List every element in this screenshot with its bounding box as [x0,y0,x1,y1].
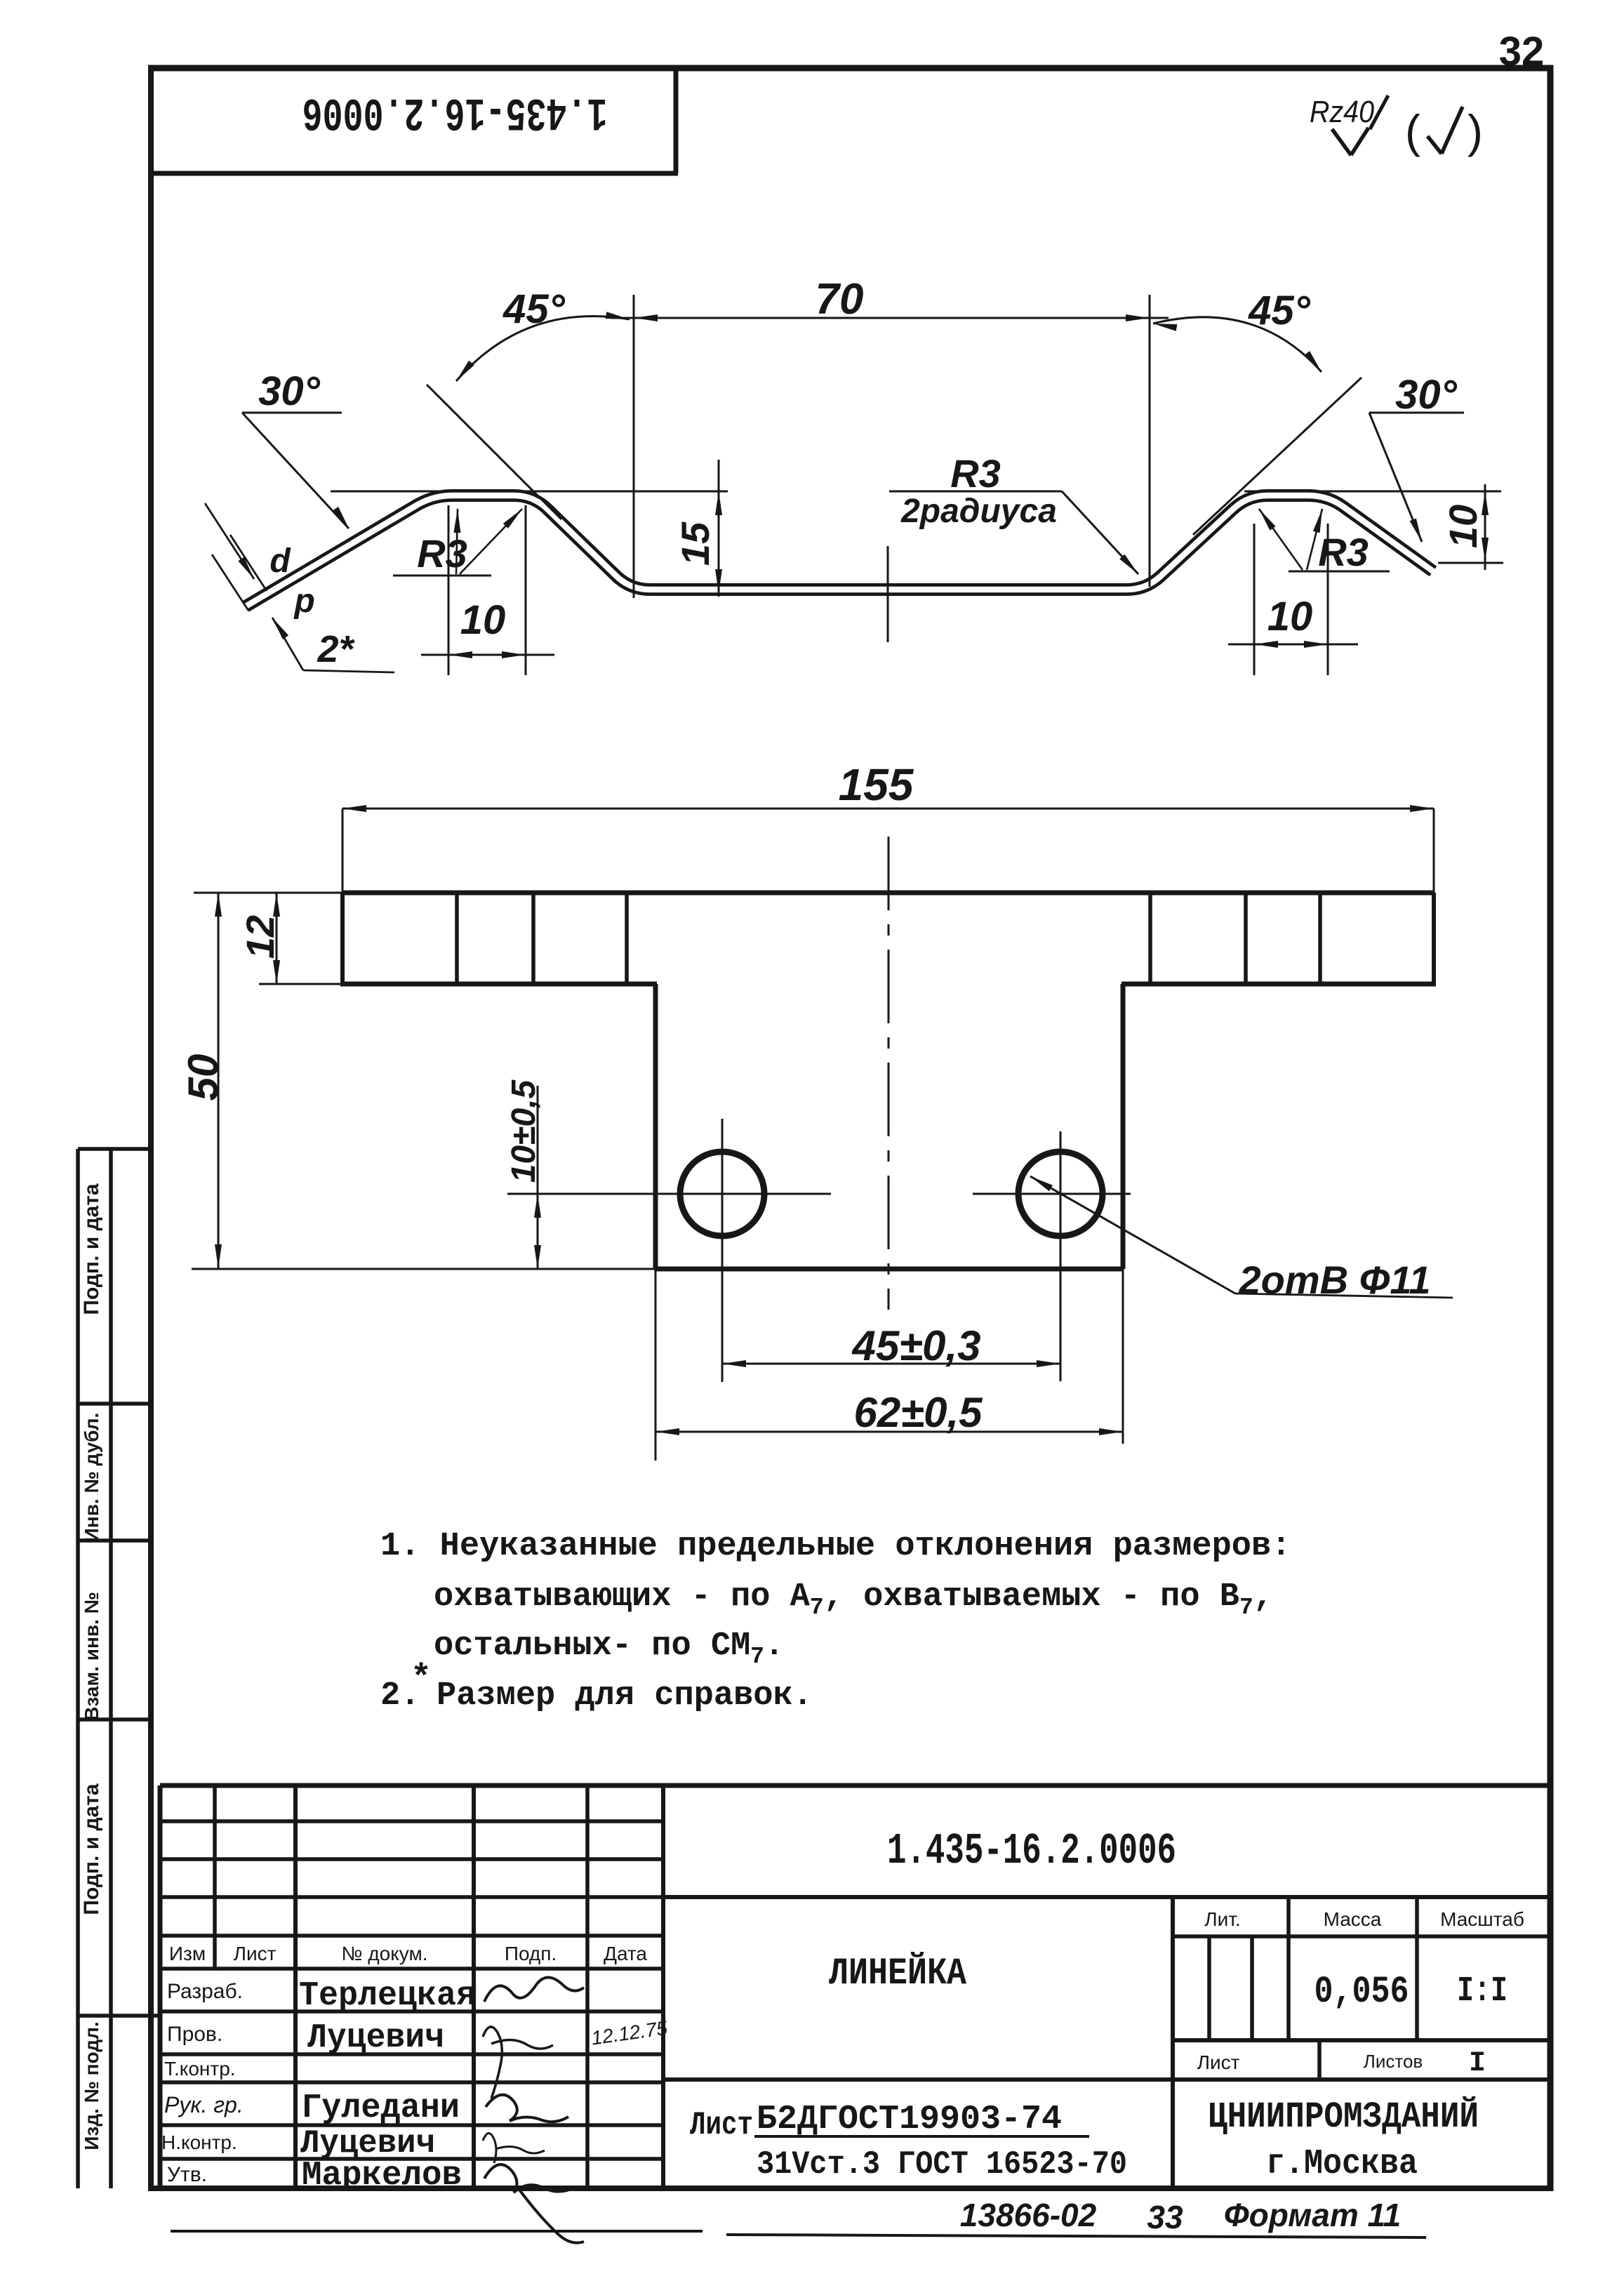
extension line at right peak top [1244,491,1501,493]
svg-text:1.435-16.2.0006: 1.435-16.2.0006 [302,86,608,138]
svg-text:Подп.: Подп. [505,1943,557,1964]
svg-text:г.Москва: г.Москва [1266,2144,1418,2184]
sheet thickness marks and 2* label [205,503,394,672]
svg-text:I: I [1469,2048,1486,2080]
svg-text:R3: R3 [417,531,467,576]
svg-text:Лит.: Лит. [1204,1908,1241,1930]
dimension 15 [673,460,722,597]
svg-text:Б2ДГОСТ19903-74: Б2ДГОСТ19903-74 [757,2101,1062,2139]
svg-text:p: p [293,583,314,620]
svg-text:70: 70 [816,275,864,324]
Lit Massa Masshtab header [1204,1908,1524,1930]
right dimension 10 [1228,524,1358,675]
row Utv. Markelov [167,2157,584,2243]
svg-text:Дата: Дата [604,1943,647,1964]
svg-text:12.12.75: 12.12.75 [590,2017,670,2049]
svg-text:155: 155 [839,759,914,810]
row Razrab. Terletskaya [167,1977,584,2015]
svg-text:31Vст.3 ГОСТ 16523-70: 31Vст.3 ГОСТ 16523-70 [757,2146,1127,2183]
svg-text:Рук. гр.: Рук. гр. [164,2092,244,2117]
svg-text:(: ( [1405,105,1420,157]
bottom underline right [726,2235,1426,2237]
dimension 70 [611,275,1169,598]
svg-text:Лист: Лист [1197,2051,1240,2073]
svg-text:2*: 2* [317,628,355,670]
right angle dimension 45 deg [1153,288,1322,372]
notes text block [380,1528,1291,1715]
row Prov. Lutsevich [167,2017,669,2099]
dimension 10±0.5 [505,1079,543,1269]
right 45 degree slope extension line [1193,378,1362,535]
row N.kontr. Lutsevich [161,2125,545,2163]
front view outline: central tab [655,984,1123,1269]
svg-text:остальных- по СМ7.: остальных- по СМ7. [434,1628,784,1670]
svg-text:Инв. № дубл.: Инв. № дубл. [81,1413,102,1543]
left angle label 30 deg [242,368,349,528]
svg-text:Изд. № подл.: Изд. № подл. [81,2021,102,2150]
left 45 degree slope extension line [427,385,561,519]
svg-text:10: 10 [460,597,506,643]
dimension 155 [342,759,1434,893]
svg-text:I:I: I:I [1457,1971,1507,2011]
vertical dashed centerline [888,837,890,1310]
svg-text:10: 10 [1441,505,1485,548]
svg-text:R3: R3 [950,451,1001,495]
svg-text:): ) [1467,105,1483,157]
svg-text:Размер для справок.: Размер для справок. [437,1677,813,1715]
title block vertical lines left section [215,1785,663,2188]
svg-text:0,056: 0,056 [1314,1971,1409,2014]
svg-text:Масштаб: Масштаб [1440,1908,1524,1930]
left hole [680,1152,764,1236]
dimension 45±0.3 [722,1322,1060,1369]
svg-text:Разраб.: Разраб. [167,1980,243,2003]
bottom underline left [171,2230,703,2233]
surface roughness symbol Rz40 [1310,95,1388,155]
svg-text:Подп. и дата: Подп. и дата [80,1783,103,1915]
left angle dimension 45 deg [456,286,630,381]
leader 2 holes dia 11 [1030,1176,1453,1302]
title block outer box [160,1785,1550,2188]
svg-text:1.435-16.2.0006: 1.435-16.2.0006 [887,1826,1176,1876]
svg-text:Масса: Масса [1324,1908,1382,1930]
svg-text:Лист: Лист [690,2107,753,2143]
svg-text:12: 12 [238,915,282,959]
svg-text:1. Неуказанные предельные откл: 1. Неуказанные предельные отклонения раз… [380,1528,1291,1565]
svg-text:15: 15 [673,521,717,566]
right vertical dimension 10 [1438,484,1503,570]
svg-text:45°: 45° [1248,288,1311,333]
svg-text:Листов: Листов [1364,2051,1423,2072]
header row labels [169,1943,648,1964]
svg-text:45°: 45° [502,286,566,332]
svg-text:33: 33 [1147,2199,1183,2235]
svg-text:62±0,5: 62±0,5 [853,1389,983,1436]
svg-text:№ докум.: № докум. [341,1943,427,1964]
svg-text:*: * [411,1659,432,1699]
svg-text:Т.контр.: Т.контр. [164,2058,236,2080]
svg-text:ЛИНЕЙКА: ЛИНЕЙКА [829,1952,967,1995]
svg-text:2радиуса: 2радиуса [900,493,1057,530]
svg-text:50: 50 [180,1054,227,1101]
svg-text:Изм: Изм [169,1943,206,1964]
profile vertical centerline tick [887,546,889,642]
dimension 50 [180,893,227,1268]
dimension 62±0.5 [655,1269,1123,1461]
right hole centerlines [973,1131,1131,1381]
front view outline: top strip [340,893,1436,984]
svg-text:Формат 11: Формат 11 [1224,2197,1402,2233]
svg-text:Маркелов: Маркелов [302,2157,462,2195]
svg-text:2отВ Ф11: 2отВ Ф11 [1239,1258,1431,1302]
row Ruk. gr. Guledani [164,2089,568,2127]
svg-text:Подп. и дата: Подп. и дата [80,1183,103,1315]
left dimension 10 [421,505,554,675]
svg-text:Луцевич: Луцевич [307,2019,444,2057]
checked symbol (v) [1405,105,1483,157]
svg-text:Лист: Лист [234,1943,277,1964]
svg-text:Терлецкая: Терлецкая [299,1977,476,2015]
right angle label 30 deg [1369,372,1464,542]
dimension 12 [238,893,282,984]
organization TSNIIPROMZDANIJ Moscow [1208,2096,1479,2184]
svg-text:30°: 30° [1395,372,1458,418]
left margin column boxes [78,1149,160,2188]
material cell [690,2101,1127,2183]
extension line at left peak top [331,491,728,493]
svg-text:Н.контр.: Н.контр. [161,2131,237,2153]
bottom handwritten inventory numbers [960,2197,1401,2235]
svg-text:45±0,3: 45±0,3 [851,1322,980,1369]
right radius label R3 [1259,509,1390,574]
svg-text:d: d [269,543,291,580]
svg-text:охватывающих - по А7, охватыва: охватывающих - по А7, охватываемых - по … [434,1578,1273,1621]
extension lines for 12 and 50 [192,893,657,1269]
left hole centerlines [507,1119,831,1382]
title block horizontal lines left section [160,1821,663,2159]
svg-text:Гуледани: Гуледани [302,2089,460,2127]
top stamp box with inverted document number 1.435-16.2.0006 [151,68,678,173]
svg-text:30°: 30° [258,368,321,414]
svg-text:32: 32 [1499,29,1545,74]
svg-text:Взам. инв. №: Взам. инв. № [81,1592,102,1721]
List / Listov row [1197,2048,1486,2080]
left radius label R3 [393,509,522,576]
svg-text:Утв.: Утв. [167,2163,207,2186]
svg-text:R3: R3 [1318,530,1369,574]
svg-text:10±0,5: 10±0,5 [505,1079,543,1183]
bend lines on strip [457,893,1320,984]
svg-text:Пров.: Пров. [167,2023,222,2046]
svg-text:10: 10 [1267,594,1313,639]
profile view: bent sheet metal cross-section outline [246,495,1433,606]
svg-text:13866-02: 13866-02 [960,2197,1097,2233]
radius label R3 2 radii [889,451,1138,574]
right hole [1018,1152,1103,1236]
svg-text:ЦНИИПРОМЗДАНИЙ: ЦНИИПРОМЗДАНИЙ [1208,2096,1479,2138]
svg-text:Rz40: Rz40 [1310,95,1374,129]
title block right section lines [663,1897,1550,2188]
